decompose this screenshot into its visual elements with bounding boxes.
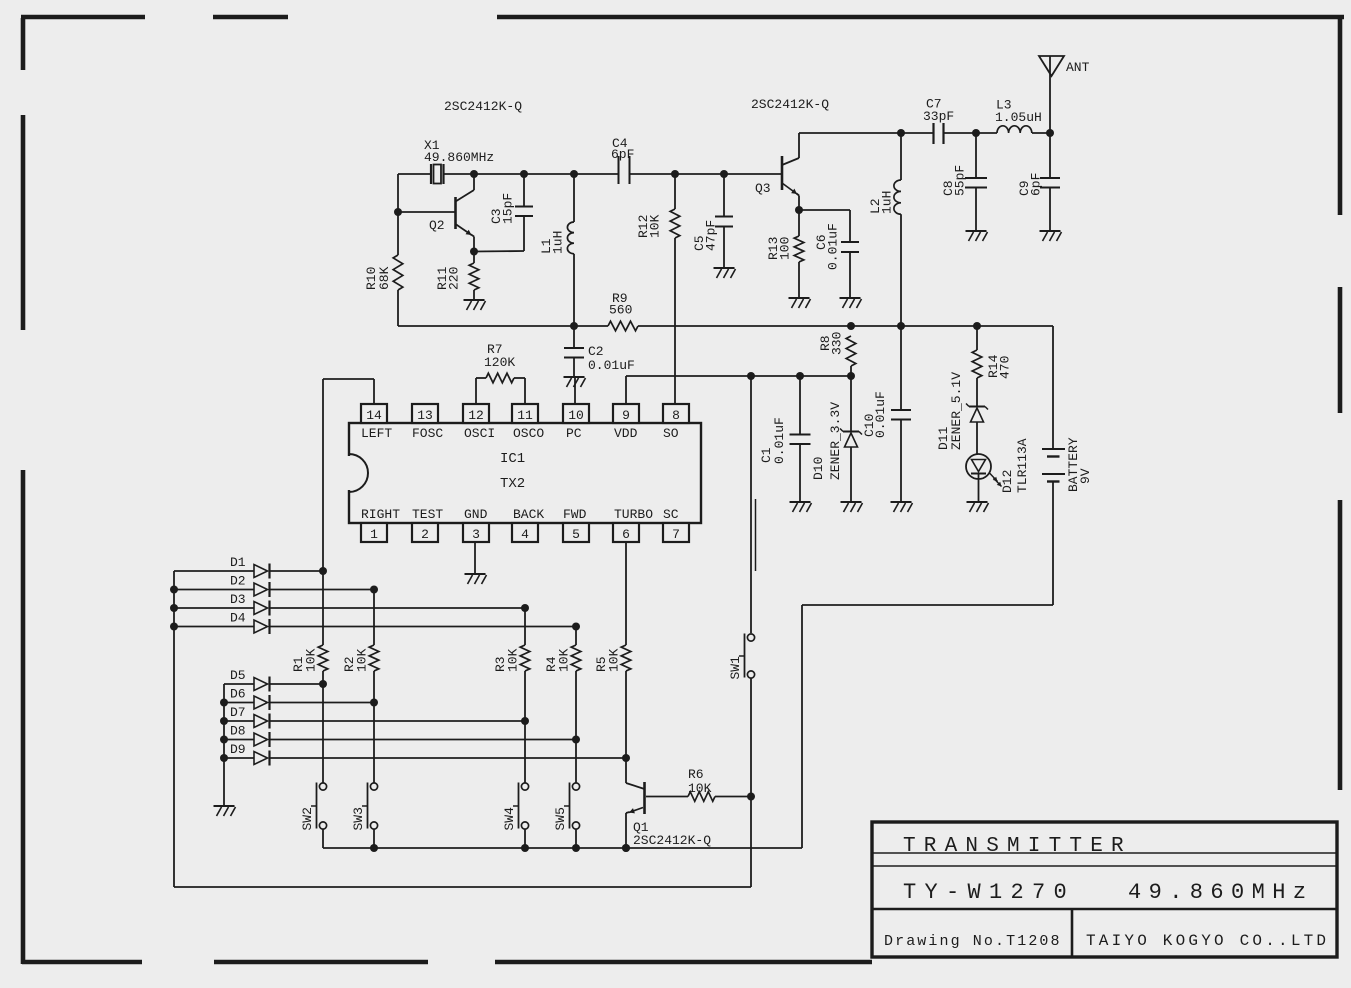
svg-text:2SC2412K-Q: 2SC2412K-Q bbox=[444, 99, 522, 114]
svg-text:FWD: FWD bbox=[563, 507, 587, 522]
svg-text:RIGHT: RIGHT bbox=[361, 507, 400, 522]
svg-text:4: 4 bbox=[521, 527, 529, 542]
svg-text:D2: D2 bbox=[230, 574, 246, 589]
svg-text:D9: D9 bbox=[230, 742, 246, 757]
svg-text:560: 560 bbox=[609, 303, 632, 318]
svg-text:49.860MHz: 49.860MHz bbox=[424, 150, 494, 165]
svg-text:6: 6 bbox=[622, 527, 630, 542]
svg-text:D1: D1 bbox=[230, 555, 246, 570]
svg-text:9V: 9V bbox=[1078, 468, 1093, 484]
svg-text:Q3: Q3 bbox=[755, 181, 771, 196]
svg-text:C2: C2 bbox=[588, 344, 604, 359]
svg-text:SW4: SW4 bbox=[502, 807, 517, 831]
svg-text:10K: 10K bbox=[688, 781, 712, 796]
svg-text:TURBO: TURBO bbox=[614, 507, 653, 522]
svg-text:SW5: SW5 bbox=[553, 807, 568, 830]
svg-text:11: 11 bbox=[517, 408, 533, 423]
svg-text:0.01uF: 0.01uF bbox=[826, 223, 841, 270]
svg-text:0.01uF: 0.01uF bbox=[588, 358, 635, 373]
svg-text:68K: 68K bbox=[377, 266, 392, 290]
svg-text:TX2: TX2 bbox=[500, 476, 525, 492]
svg-text:10K: 10K bbox=[304, 648, 319, 672]
svg-text:8: 8 bbox=[672, 408, 680, 423]
svg-text:6pF: 6pF bbox=[1029, 173, 1044, 196]
svg-text:2SC2412K-Q: 2SC2412K-Q bbox=[633, 833, 711, 848]
svg-text:10: 10 bbox=[568, 408, 584, 423]
svg-text:D4: D4 bbox=[230, 611, 246, 626]
svg-text:Q2: Q2 bbox=[429, 218, 445, 233]
svg-text:10K: 10K bbox=[607, 648, 622, 672]
svg-text:100: 100 bbox=[778, 237, 793, 260]
svg-text:D12: D12 bbox=[1000, 470, 1015, 493]
svg-text:TRANSMITTER: TRANSMITTER bbox=[903, 835, 1132, 858]
svg-text:OSCI: OSCI bbox=[464, 426, 495, 441]
svg-text:10K: 10K bbox=[355, 648, 370, 672]
svg-text:TEST: TEST bbox=[412, 507, 443, 522]
svg-text:TLR113A: TLR113A bbox=[1015, 438, 1030, 493]
svg-text:10K: 10K bbox=[557, 648, 572, 672]
svg-text:9: 9 bbox=[622, 408, 630, 423]
svg-text:15pF: 15pF bbox=[501, 193, 516, 224]
svg-text:LEFT: LEFT bbox=[361, 426, 392, 441]
svg-text:D6: D6 bbox=[230, 687, 246, 702]
svg-text:1: 1 bbox=[370, 527, 378, 542]
svg-text:13: 13 bbox=[417, 408, 433, 423]
svg-text:D10: D10 bbox=[811, 457, 826, 480]
svg-text:120K: 120K bbox=[484, 355, 515, 370]
svg-text:OSCO: OSCO bbox=[513, 426, 544, 441]
svg-text:ZENER_5.1V: ZENER_5.1V bbox=[949, 372, 964, 450]
svg-text:1uH: 1uH bbox=[551, 231, 566, 254]
svg-text:FOSC: FOSC bbox=[412, 426, 443, 441]
svg-text:VDD: VDD bbox=[614, 426, 638, 441]
svg-text:330: 330 bbox=[830, 332, 845, 355]
svg-text:7: 7 bbox=[672, 527, 680, 542]
svg-text:0.01uF: 0.01uF bbox=[772, 417, 787, 464]
svg-text:D3: D3 bbox=[230, 592, 246, 607]
svg-text:3: 3 bbox=[472, 527, 480, 542]
svg-text:10K: 10K bbox=[648, 214, 663, 238]
svg-text:BACK: BACK bbox=[513, 507, 544, 522]
svg-text:10K: 10K bbox=[506, 648, 521, 672]
svg-text:SC: SC bbox=[663, 507, 679, 522]
svg-text:GND: GND bbox=[464, 507, 488, 522]
svg-text:Drawing No.T1208: Drawing No.T1208 bbox=[884, 933, 1062, 950]
svg-text:ZENER_3.3V: ZENER_3.3V bbox=[828, 402, 843, 480]
svg-text:SW2: SW2 bbox=[300, 807, 315, 830]
svg-text:ANT: ANT bbox=[1066, 60, 1090, 75]
svg-text:14: 14 bbox=[366, 408, 382, 423]
svg-text:TY-W1270: TY-W1270 bbox=[903, 880, 1075, 905]
svg-text:5: 5 bbox=[572, 527, 580, 542]
svg-text:D8: D8 bbox=[230, 724, 246, 739]
svg-text:1.05uH: 1.05uH bbox=[995, 110, 1042, 125]
svg-text:TAIYO KOGYO CO..LTD: TAIYO KOGYO CO..LTD bbox=[1086, 932, 1329, 950]
svg-text:47pF: 47pF bbox=[704, 220, 719, 251]
svg-text:33pF: 33pF bbox=[923, 109, 954, 124]
svg-text:2SC2412K-Q: 2SC2412K-Q bbox=[751, 97, 829, 112]
svg-text:2: 2 bbox=[421, 527, 429, 542]
svg-text:55pF: 55pF bbox=[953, 165, 968, 196]
svg-text:470: 470 bbox=[998, 356, 1013, 379]
svg-text:IC1: IC1 bbox=[500, 451, 525, 467]
svg-text:R6: R6 bbox=[688, 767, 704, 782]
svg-text:6pF: 6pF bbox=[611, 147, 634, 162]
svg-text:12: 12 bbox=[468, 408, 484, 423]
svg-text:0.01uF: 0.01uF bbox=[873, 391, 888, 438]
svg-text:SW1: SW1 bbox=[728, 656, 743, 680]
svg-text:D5: D5 bbox=[230, 668, 246, 683]
svg-text:SO: SO bbox=[663, 426, 679, 441]
svg-text:SW3: SW3 bbox=[351, 807, 366, 830]
svg-text:PC: PC bbox=[566, 426, 582, 441]
svg-text:220: 220 bbox=[447, 267, 462, 290]
svg-text:D7: D7 bbox=[230, 705, 246, 720]
svg-text:49.860MHz: 49.860MHz bbox=[1128, 880, 1313, 905]
svg-text:1uH: 1uH bbox=[880, 191, 895, 214]
